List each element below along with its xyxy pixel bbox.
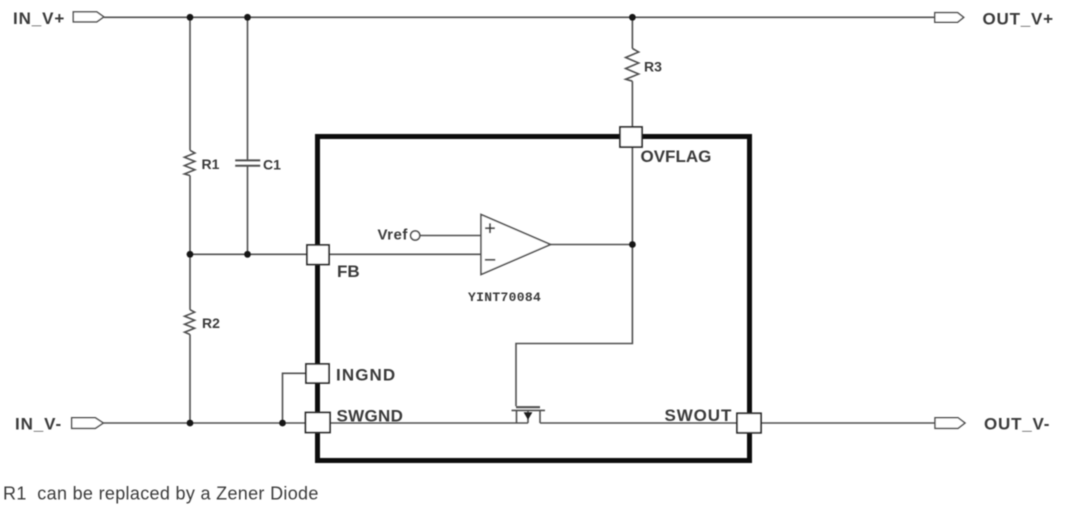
svg-text:YINT70084: YINT70084	[468, 290, 541, 305]
svg-text:INGND: INGND	[336, 365, 396, 384]
svg-text:IN_V+: IN_V+	[13, 9, 65, 28]
svg-text:SWGND: SWGND	[337, 406, 404, 425]
svg-text:Vref: Vref	[378, 226, 409, 243]
svg-text:OUT_V+: OUT_V+	[983, 10, 1054, 29]
svg-text:IN_V-: IN_V-	[15, 414, 62, 433]
svg-text:R2: R2	[202, 315, 220, 331]
svg-text:OVFLAG: OVFLAG	[641, 147, 712, 166]
svg-text:R1: R1	[202, 156, 220, 172]
svg-text:C1: C1	[263, 157, 281, 173]
svg-text:R3: R3	[644, 59, 662, 75]
svg-text:FB: FB	[337, 262, 360, 281]
svg-text:SWOUT: SWOUT	[665, 406, 733, 425]
svg-text:R1 can be replaced by a Zener: R1 can be replaced by a Zener Diode	[3, 483, 319, 503]
svg-text:OUT_V-: OUT_V-	[984, 414, 1050, 433]
